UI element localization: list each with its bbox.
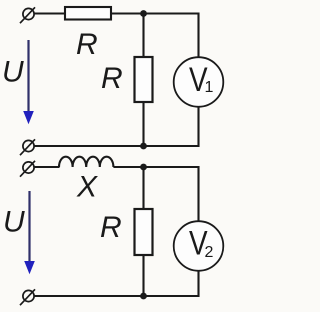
arrow U circuit1: [23, 40, 34, 124]
svg-text:R: R: [76, 28, 98, 61]
node junction top circuit1: [140, 10, 147, 17]
terminal top-left circuit2: [20, 161, 35, 177]
wire top circuit2 left: [34, 166, 60, 168]
wire junction to resistor R2: [142, 14, 144, 58]
svg-text:R: R: [101, 62, 123, 95]
arrow U circuit2: [24, 191, 35, 274]
terminal bottom-left circuit2: [20, 289, 35, 305]
resistor R3 vertical: [135, 209, 153, 255]
svg-text:1: 1: [205, 79, 214, 96]
wire junction to resistor R3: [142, 167, 144, 209]
resistor R1 horizontal: [65, 7, 111, 20]
voltmeter V1: [174, 57, 224, 107]
resistor R2 vertical: [135, 57, 153, 102]
svg-text:U: U: [2, 56, 24, 89]
wire right column to voltmeter V2: [197, 166, 199, 222]
wire resistor R3 to bottom: [142, 255, 144, 296]
wire resistor R2 to bottom: [142, 102, 144, 146]
voltmeter V2: [174, 221, 224, 271]
svg-text:2: 2: [205, 244, 214, 261]
wire right column to voltmeter V1: [197, 13, 199, 58]
wire voltmeter V1 to bottom: [197, 107, 199, 147]
wire top circuit2 right: [113, 166, 198, 168]
wire bottom circuit2: [34, 295, 200, 297]
wire voltmeter V2 to bottom: [197, 271, 199, 297]
node junction top circuit2: [140, 164, 147, 171]
terminal bottom-left circuit1: [20, 139, 35, 155]
inductor X: [59, 157, 113, 167]
terminal top-left circuit1: [20, 7, 35, 23]
svg-text:R: R: [100, 211, 122, 244]
wire top circuit1 left: [34, 12, 65, 14]
node junction bottom circuit2: [140, 293, 147, 300]
wire bottom circuit1: [34, 145, 200, 147]
svg-text:X: X: [76, 171, 98, 204]
svg-text:U: U: [3, 206, 25, 239]
node junction bottom circuit1: [140, 143, 147, 150]
wire top circuit1 right: [111, 12, 199, 14]
